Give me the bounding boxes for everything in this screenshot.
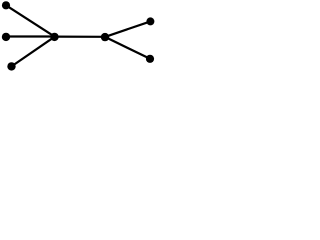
node 2 (mid-left) [2, 33, 10, 41]
node 7 (bottom-right) [146, 55, 154, 63]
edge node5-node6 [105, 21, 150, 37]
node 4 (center) [50, 33, 58, 41]
edge node5-node7 [105, 37, 150, 59]
edge node3-node4 [12, 37, 55, 67]
node 6 (top-right) [146, 17, 154, 25]
node 3 (bottom-left) [7, 62, 15, 70]
edge node1-node4 [6, 5, 55, 36]
node 1 (top-left) [2, 1, 10, 9]
edge node4-node5 [55, 35, 106, 37]
node 5 (right-center) [101, 33, 109, 41]
edge node2-node4 [6, 35, 55, 37]
